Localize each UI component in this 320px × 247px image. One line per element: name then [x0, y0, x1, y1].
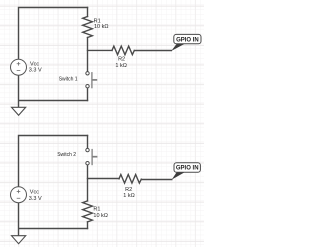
svg-text:Switch 1: Switch 1: [59, 76, 78, 82]
svg-text:R1: R1: [93, 207, 100, 213]
svg-text:3.3 V: 3.3 V: [29, 196, 42, 202]
svg-text:1 kΩ: 1 kΩ: [115, 63, 126, 69]
svg-text:GPIO IN: GPIO IN: [176, 166, 199, 172]
svg-text:R2: R2: [118, 57, 125, 63]
svg-text:10 kΩ: 10 kΩ: [93, 213, 108, 219]
svg-text:Switch 2: Switch 2: [57, 152, 76, 158]
svg-text:Vcc: Vcc: [30, 190, 39, 196]
svg-text:10 kΩ: 10 kΩ: [94, 24, 109, 30]
svg-text:GPIO IN: GPIO IN: [176, 37, 199, 43]
svg-text:1 kΩ: 1 kΩ: [123, 193, 134, 199]
svg-text:3.3 V: 3.3 V: [29, 67, 42, 73]
